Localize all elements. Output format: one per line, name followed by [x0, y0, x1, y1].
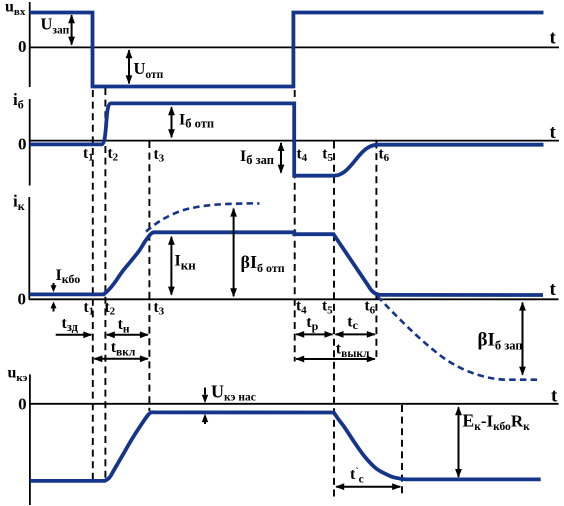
waveform i_k dashed rise (beta I_b_otp asymptote) [146, 203, 260, 231]
svg-text:uкэ: uкэ [8, 365, 28, 385]
svg-text:Uкэ нас: Uкэ нас [211, 381, 256, 403]
svg-text:t5: t5 [322, 146, 333, 165]
waveform u_vx [30, 13, 544, 87]
svg-text:0: 0 [18, 135, 27, 154]
dashed marker t6 [375, 142, 377, 358]
svg-text:Uзап: Uзап [41, 15, 70, 37]
svg-text:tс: tс [347, 314, 358, 333]
svg-text:tвыкл: tвыкл [336, 341, 370, 360]
dashed marker t3 [148, 141, 150, 411]
arrow t_n [107, 334, 148, 336]
panel u_vx vertical axis [29, 2, 31, 87]
panel i_k horizontal axis (t) [29, 298, 559, 300]
svg-text:0: 0 [18, 395, 27, 414]
arrow t_c [336, 333, 375, 335]
svg-text:0: 0 [18, 37, 27, 56]
arrow beta_I_b_zap [522, 303, 524, 375]
svg-text:t6: t6 [379, 146, 390, 165]
panel u_ke horizontal axis (t) [29, 403, 559, 405]
arrow I_kn [170, 237, 172, 295]
svg-text:t: t [551, 386, 558, 407]
dashed marker t4 [294, 90, 296, 362]
arrow t_zd [56, 334, 92, 336]
arrow t_vkl [94, 358, 148, 360]
dashed marker t5 [333, 142, 335, 497]
waveform u_ke [30, 412, 541, 481]
svg-text:t3: t3 [154, 146, 165, 165]
arrow E_k minus I_kbo_R_k [458, 407, 460, 477]
svg-text:iб: iб [13, 90, 24, 112]
arrow U_otp [128, 50, 130, 83]
svg-text:βIб зап: βIб зап [478, 330, 523, 353]
svg-text:t`с: t`с [350, 466, 364, 485]
svg-text:t6: t6 [365, 298, 376, 317]
svg-text:uвх: uвх [5, 0, 26, 18]
panel i_k vertical axis [28, 197, 30, 300]
dashed marker t2 [104, 88, 106, 479]
waveform i_k dashed decay (beta I_b_zap) [378, 297, 541, 380]
panel i_b vertical axis [29, 99, 31, 186]
arrow U_zap [71, 15, 73, 44]
svg-text:Iкбо: Iкбо [56, 267, 81, 286]
svg-text:tзд: tзд [62, 315, 79, 334]
arrow I_b_zap [280, 143, 282, 173]
svg-text:t3: t3 [154, 299, 165, 318]
svg-text:t5: t5 [322, 298, 333, 317]
arrow t_vykl [296, 358, 375, 360]
svg-text:tр: tр [306, 314, 318, 333]
svg-text:t1: t1 [83, 145, 94, 164]
svg-text:t: t [550, 122, 557, 143]
svg-text:Iб зап: Iб зап [240, 148, 274, 167]
arrow beta_I_b_otp [233, 209, 235, 297]
svg-text:tн: tн [118, 316, 130, 335]
dashed marker t_s_end [401, 405, 403, 497]
svg-text:iк: iк [13, 192, 25, 214]
arrow t_r [296, 333, 332, 335]
waveform i_b [30, 103, 544, 175]
svg-text:t4: t4 [297, 146, 308, 165]
svg-text:t2: t2 [105, 299, 116, 318]
panel u_vx horizontal axis (t) [29, 46, 559, 48]
arrow U_ke_nas upper [204, 388, 206, 395]
svg-text:Iб отп: Iб отп [179, 112, 214, 131]
dashed marker t1 [92, 90, 94, 479]
svg-text:tвкл: tвкл [111, 339, 136, 358]
panel u_ke vertical axis [29, 374, 31, 505]
arrow I_b_otp [171, 107, 173, 137]
svg-text:Eк-IкбоRк: Eк-IкбоRк [463, 411, 531, 434]
svg-text:t: t [550, 279, 557, 300]
svg-text:Uотп: Uотп [134, 59, 164, 81]
arrow U_ke_nas lower [204, 421, 206, 424]
arrow I_kbo upper [53, 283, 55, 288]
panel i_b horizontal axis (t) [29, 140, 559, 142]
arrow t_c_prime [336, 486, 400, 488]
arrow I_kbo lower [53, 307, 55, 312]
svg-text:t: t [550, 28, 557, 49]
svg-text:t2: t2 [108, 145, 119, 164]
svg-text:Iкн: Iкн [175, 253, 197, 273]
svg-text:βIб отп: βIб отп [241, 252, 285, 275]
svg-text:0: 0 [18, 290, 27, 309]
waveform i_k solid [30, 232, 543, 295]
